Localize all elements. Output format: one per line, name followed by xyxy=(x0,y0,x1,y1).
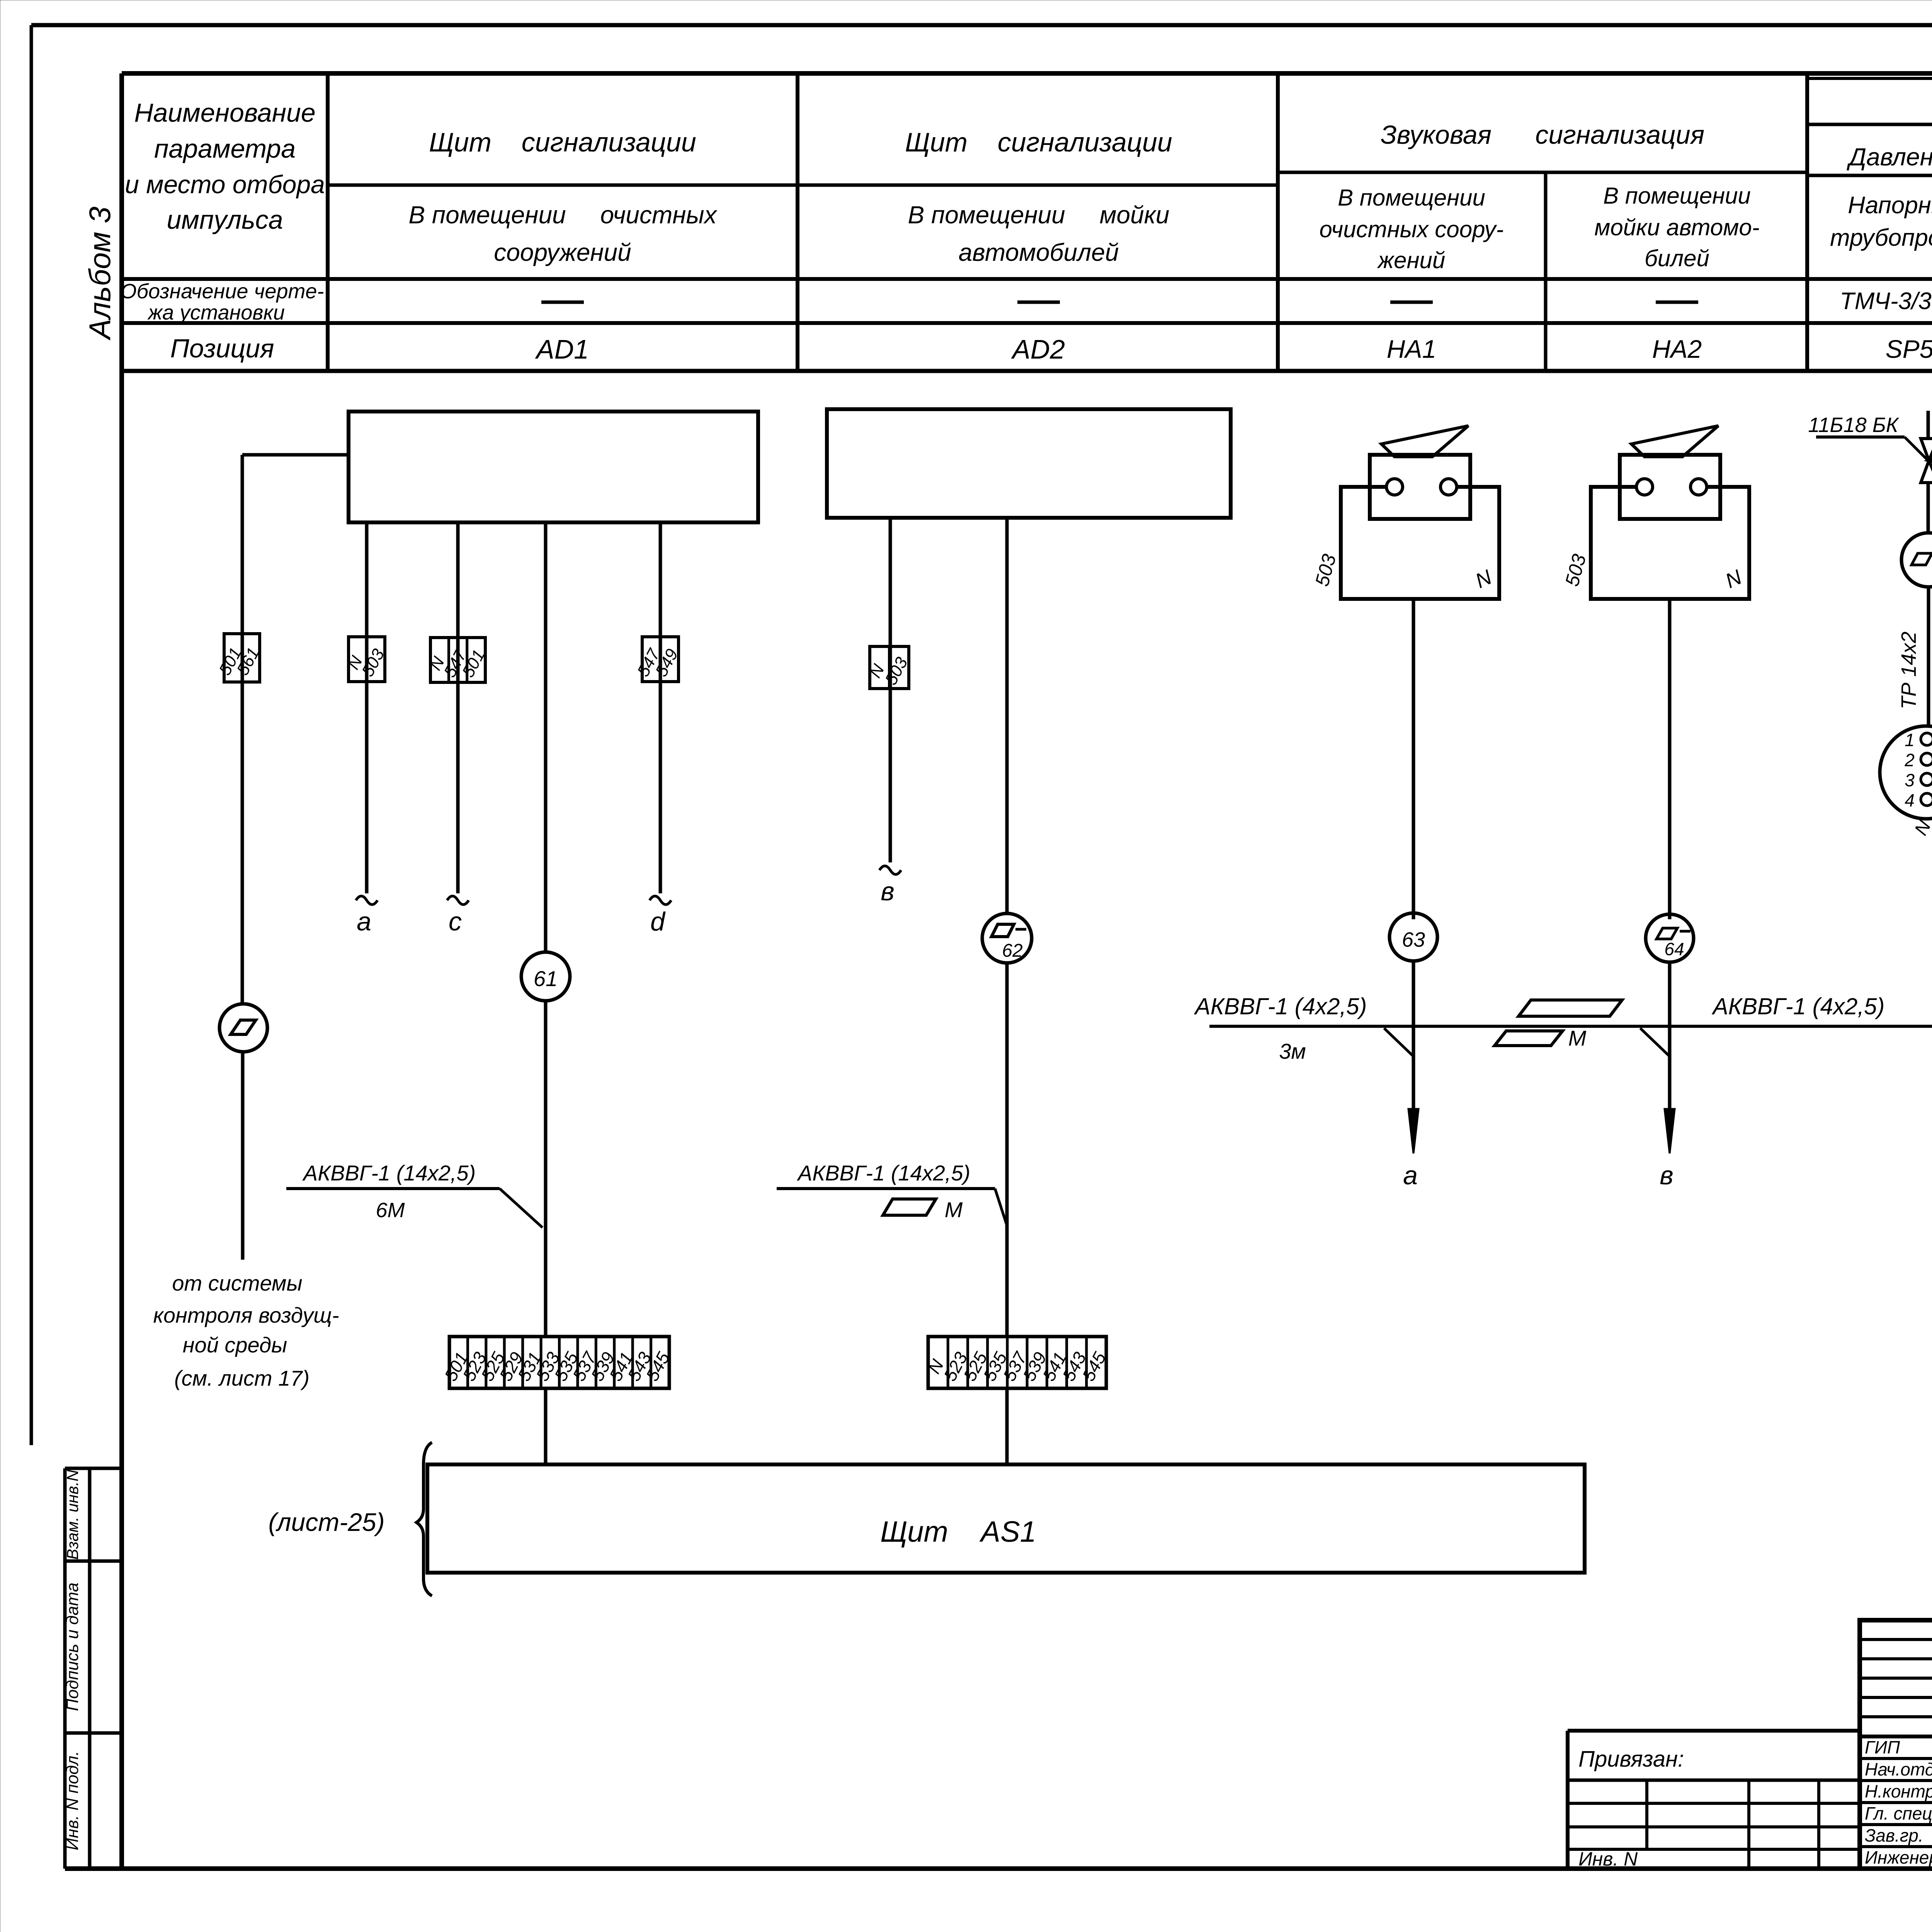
svg-text:Обозначение черте-: Обозначение черте- xyxy=(121,280,324,303)
svg-text:трубопровад: трубопровад xyxy=(1830,224,1932,251)
svg-text:Звуковая сигнализация: Звуковая сигнализация xyxy=(1381,120,1704,150)
svg-text:ТР 14х2: ТР 14х2 xyxy=(1897,631,1920,709)
svg-text:сооружений: сооружений xyxy=(494,238,631,266)
svg-text:Подпись и дата: Подпись и дата xyxy=(63,1583,82,1711)
svg-text:М: М xyxy=(1568,1026,1587,1050)
svg-text:64: 64 xyxy=(1664,939,1684,959)
svg-text:Альбом 3: Альбом 3 xyxy=(83,207,117,341)
svg-text:d: d xyxy=(650,907,666,936)
svg-text:контроля воздущ-: контроля воздущ- xyxy=(153,1303,339,1327)
svg-text:а: а xyxy=(1403,1161,1418,1190)
svg-text:В помещении: В помещении xyxy=(1603,183,1751,209)
svg-text:от системы: от системы xyxy=(172,1271,302,1295)
svg-text:Зав.гр.: Зав.гр. xyxy=(1865,1825,1923,1845)
svg-text:Напорный: Напорный xyxy=(1848,192,1932,219)
svg-text:Щит сигнализации: Щит сигнализации xyxy=(429,127,696,157)
svg-text:М: М xyxy=(945,1197,963,1222)
svg-text:1: 1 xyxy=(1905,730,1915,750)
svg-text:3: 3 xyxy=(1905,770,1915,790)
svg-text:мойки автомо-: мойки автомо- xyxy=(1594,214,1759,240)
svg-text:а: а xyxy=(357,907,371,936)
svg-text:Давление: Давление xyxy=(1847,143,1932,171)
svg-text:6М: 6М xyxy=(376,1199,405,1222)
svg-text:жа установки: жа установки xyxy=(147,301,285,324)
svg-text:Взам. инв.N: Взам. инв.N xyxy=(63,1469,82,1560)
svg-text:Гл. спец.: Гл. спец. xyxy=(1865,1803,1932,1823)
svg-text:4М: 4М xyxy=(1930,656,1932,685)
svg-text:61: 61 xyxy=(534,966,558,991)
svg-text:63: 63 xyxy=(1402,928,1425,951)
svg-text:и место отбора: и место отбора xyxy=(125,170,325,199)
svg-text:АD2: АD2 xyxy=(1011,334,1065,364)
svg-text:ТМЧ-3/37-70: ТМЧ-3/37-70 xyxy=(1840,288,1932,315)
svg-text:ГИП: ГИП xyxy=(1865,1737,1900,1757)
svg-text:В помещении мойки: В помещении мойки xyxy=(908,201,1170,229)
svg-text:(см. лист 17): (см. лист 17) xyxy=(174,1366,310,1390)
svg-text:АD1: АD1 xyxy=(535,334,589,364)
svg-text:Привязан:: Привязан: xyxy=(1578,1747,1684,1772)
svg-text:очистных соору-: очистных соору- xyxy=(1319,216,1503,242)
svg-text:в: в xyxy=(881,877,895,906)
svg-text:Нач.отд.: Нач.отд. xyxy=(1865,1759,1932,1779)
svg-text:62: 62 xyxy=(1002,940,1022,961)
svg-text:3м: 3м xyxy=(1279,1039,1306,1063)
svg-text:В помещении: В помещении xyxy=(1338,185,1485,211)
svg-text:АКВВГ-1 (14х2,5): АКВВГ-1 (14х2,5) xyxy=(302,1161,476,1185)
svg-text:Инв. N: Инв. N xyxy=(1578,1848,1638,1870)
svg-text:билей: билей xyxy=(1645,245,1709,271)
svg-text:НА1: НА1 xyxy=(1387,335,1436,363)
svg-text:жений: жений xyxy=(1377,247,1445,273)
svg-text:SР5: SР5 xyxy=(1886,335,1932,363)
svg-text:АКВВГ-1 (4х2,5): АКВВГ-1 (4х2,5) xyxy=(1712,993,1885,1019)
svg-text:2: 2 xyxy=(1904,750,1915,770)
svg-text:(лист-25): (лист-25) xyxy=(268,1508,384,1536)
svg-text:НА2: НА2 xyxy=(1652,335,1702,363)
svg-text:Инв. N подл.: Инв. N подл. xyxy=(63,1751,82,1850)
svg-text:в: в xyxy=(1660,1161,1673,1190)
svg-text:4: 4 xyxy=(1905,790,1915,810)
svg-text:Наименование: Наименование xyxy=(134,98,315,128)
svg-text:импульса: импульса xyxy=(167,205,283,235)
svg-text:Щит АS1: Щит АS1 xyxy=(880,1515,1036,1548)
svg-text:с: с xyxy=(449,907,462,936)
svg-text:АКВВГ-1 (4х2,5): АКВВГ-1 (4х2,5) xyxy=(1194,993,1367,1019)
svg-text:Позиция: Позиция xyxy=(170,334,274,363)
svg-text:параметра: параметра xyxy=(154,134,296,163)
svg-text:Щит сигнализации: Щит сигнализации xyxy=(905,127,1172,157)
svg-text:АКВВГ-1 (14х2,5): АКВВГ-1 (14х2,5) xyxy=(797,1161,970,1185)
svg-text:ной среды: ной среды xyxy=(183,1333,287,1357)
svg-text:11Б18 БК: 11Б18 БК xyxy=(1808,413,1899,437)
svg-text:автомобилей: автомобилей xyxy=(959,238,1119,266)
svg-text:Н.контр.: Н.контр. xyxy=(1865,1781,1932,1801)
svg-text:В помещении очистных: В помещении очистных xyxy=(408,201,717,229)
svg-text:Инженер: Инженер xyxy=(1865,1847,1932,1867)
